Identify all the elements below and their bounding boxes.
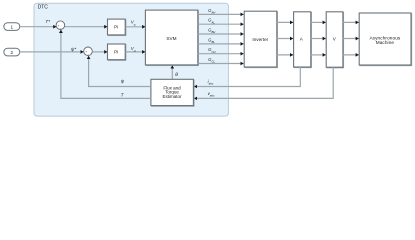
Asynchronous Machine block bbox=[360, 14, 412, 66]
svg-text:PI: PI bbox=[114, 50, 118, 55]
svg-text:1: 1 bbox=[11, 25, 14, 30]
wire phase b bbox=[311, 38, 326, 40]
svg-text:SVM: SVM bbox=[166, 36, 176, 41]
wire PI2 to SVM, label Vd bbox=[125, 51, 145, 53]
wire sum1 to PI1 bbox=[65, 26, 108, 28]
wire port1 to sum1 bbox=[20, 26, 57, 28]
wire phase c bbox=[311, 54, 326, 56]
svg-text:Estimator: Estimator bbox=[162, 94, 182, 99]
wire phase c bbox=[277, 54, 293, 56]
wire G_BH bbox=[198, 33, 244, 35]
svg-text:T*: T* bbox=[45, 19, 50, 24]
SVM block bbox=[146, 11, 198, 66]
wire port2 to sum2 bbox=[20, 51, 84, 53]
wire G_CL bbox=[198, 63, 244, 65]
wire G_CH bbox=[198, 53, 244, 55]
svg-text:V: V bbox=[333, 37, 336, 42]
wire phase a bbox=[343, 21, 359, 23]
PI controller 2 bbox=[108, 45, 126, 61]
wire phase a bbox=[277, 21, 293, 23]
wire phase b bbox=[277, 38, 293, 40]
voltage measurement block V bbox=[327, 13, 344, 68]
svg-text:−: − bbox=[87, 52, 89, 56]
v_abc feedback wire from V to estimator bbox=[194, 67, 333, 98]
input port 1 bbox=[4, 23, 20, 31]
sum junction 2 bbox=[84, 47, 93, 56]
svg-text:ψ*: ψ* bbox=[71, 47, 76, 52]
T feedback wire estimator to sum1 bbox=[61, 30, 151, 99]
wire sum2 to PI2 bbox=[92, 51, 107, 53]
svg-text:A: A bbox=[300, 37, 303, 42]
psi feedback wire estimator to sum2 bbox=[89, 56, 151, 87]
wire PI1 to SVM, label Vq bbox=[125, 26, 145, 28]
wire G_AH bbox=[198, 13, 244, 15]
svg-text:ψ: ψ bbox=[121, 79, 125, 84]
wire G_AL bbox=[198, 23, 244, 25]
svg-text:−: − bbox=[60, 26, 62, 30]
wire G_BL bbox=[198, 43, 244, 45]
current measurement block A bbox=[294, 13, 311, 68]
svg-text:θ: θ bbox=[175, 72, 178, 78]
i_abc feedback wire from A to estimator bbox=[194, 67, 300, 87]
svg-text:PI: PI bbox=[114, 25, 118, 30]
svg-text:Inverter: Inverter bbox=[252, 37, 268, 42]
Flux and Torque Estimator block bbox=[152, 80, 195, 106]
wire phase c bbox=[343, 54, 359, 56]
svg-text:DTC: DTC bbox=[38, 5, 49, 11]
sum junction 1 bbox=[56, 21, 65, 30]
DTC subsystem area bbox=[34, 3, 228, 116]
input port 2 bbox=[4, 48, 20, 56]
svg-text:Machine: Machine bbox=[376, 40, 395, 45]
svg-text:2: 2 bbox=[11, 50, 14, 55]
wire phase a bbox=[311, 21, 326, 23]
Inverter block bbox=[245, 12, 278, 68]
theta wire from estimator to SVM bbox=[171, 65, 173, 79]
wire phase b bbox=[343, 38, 359, 40]
PI controller 1 bbox=[108, 20, 126, 36]
